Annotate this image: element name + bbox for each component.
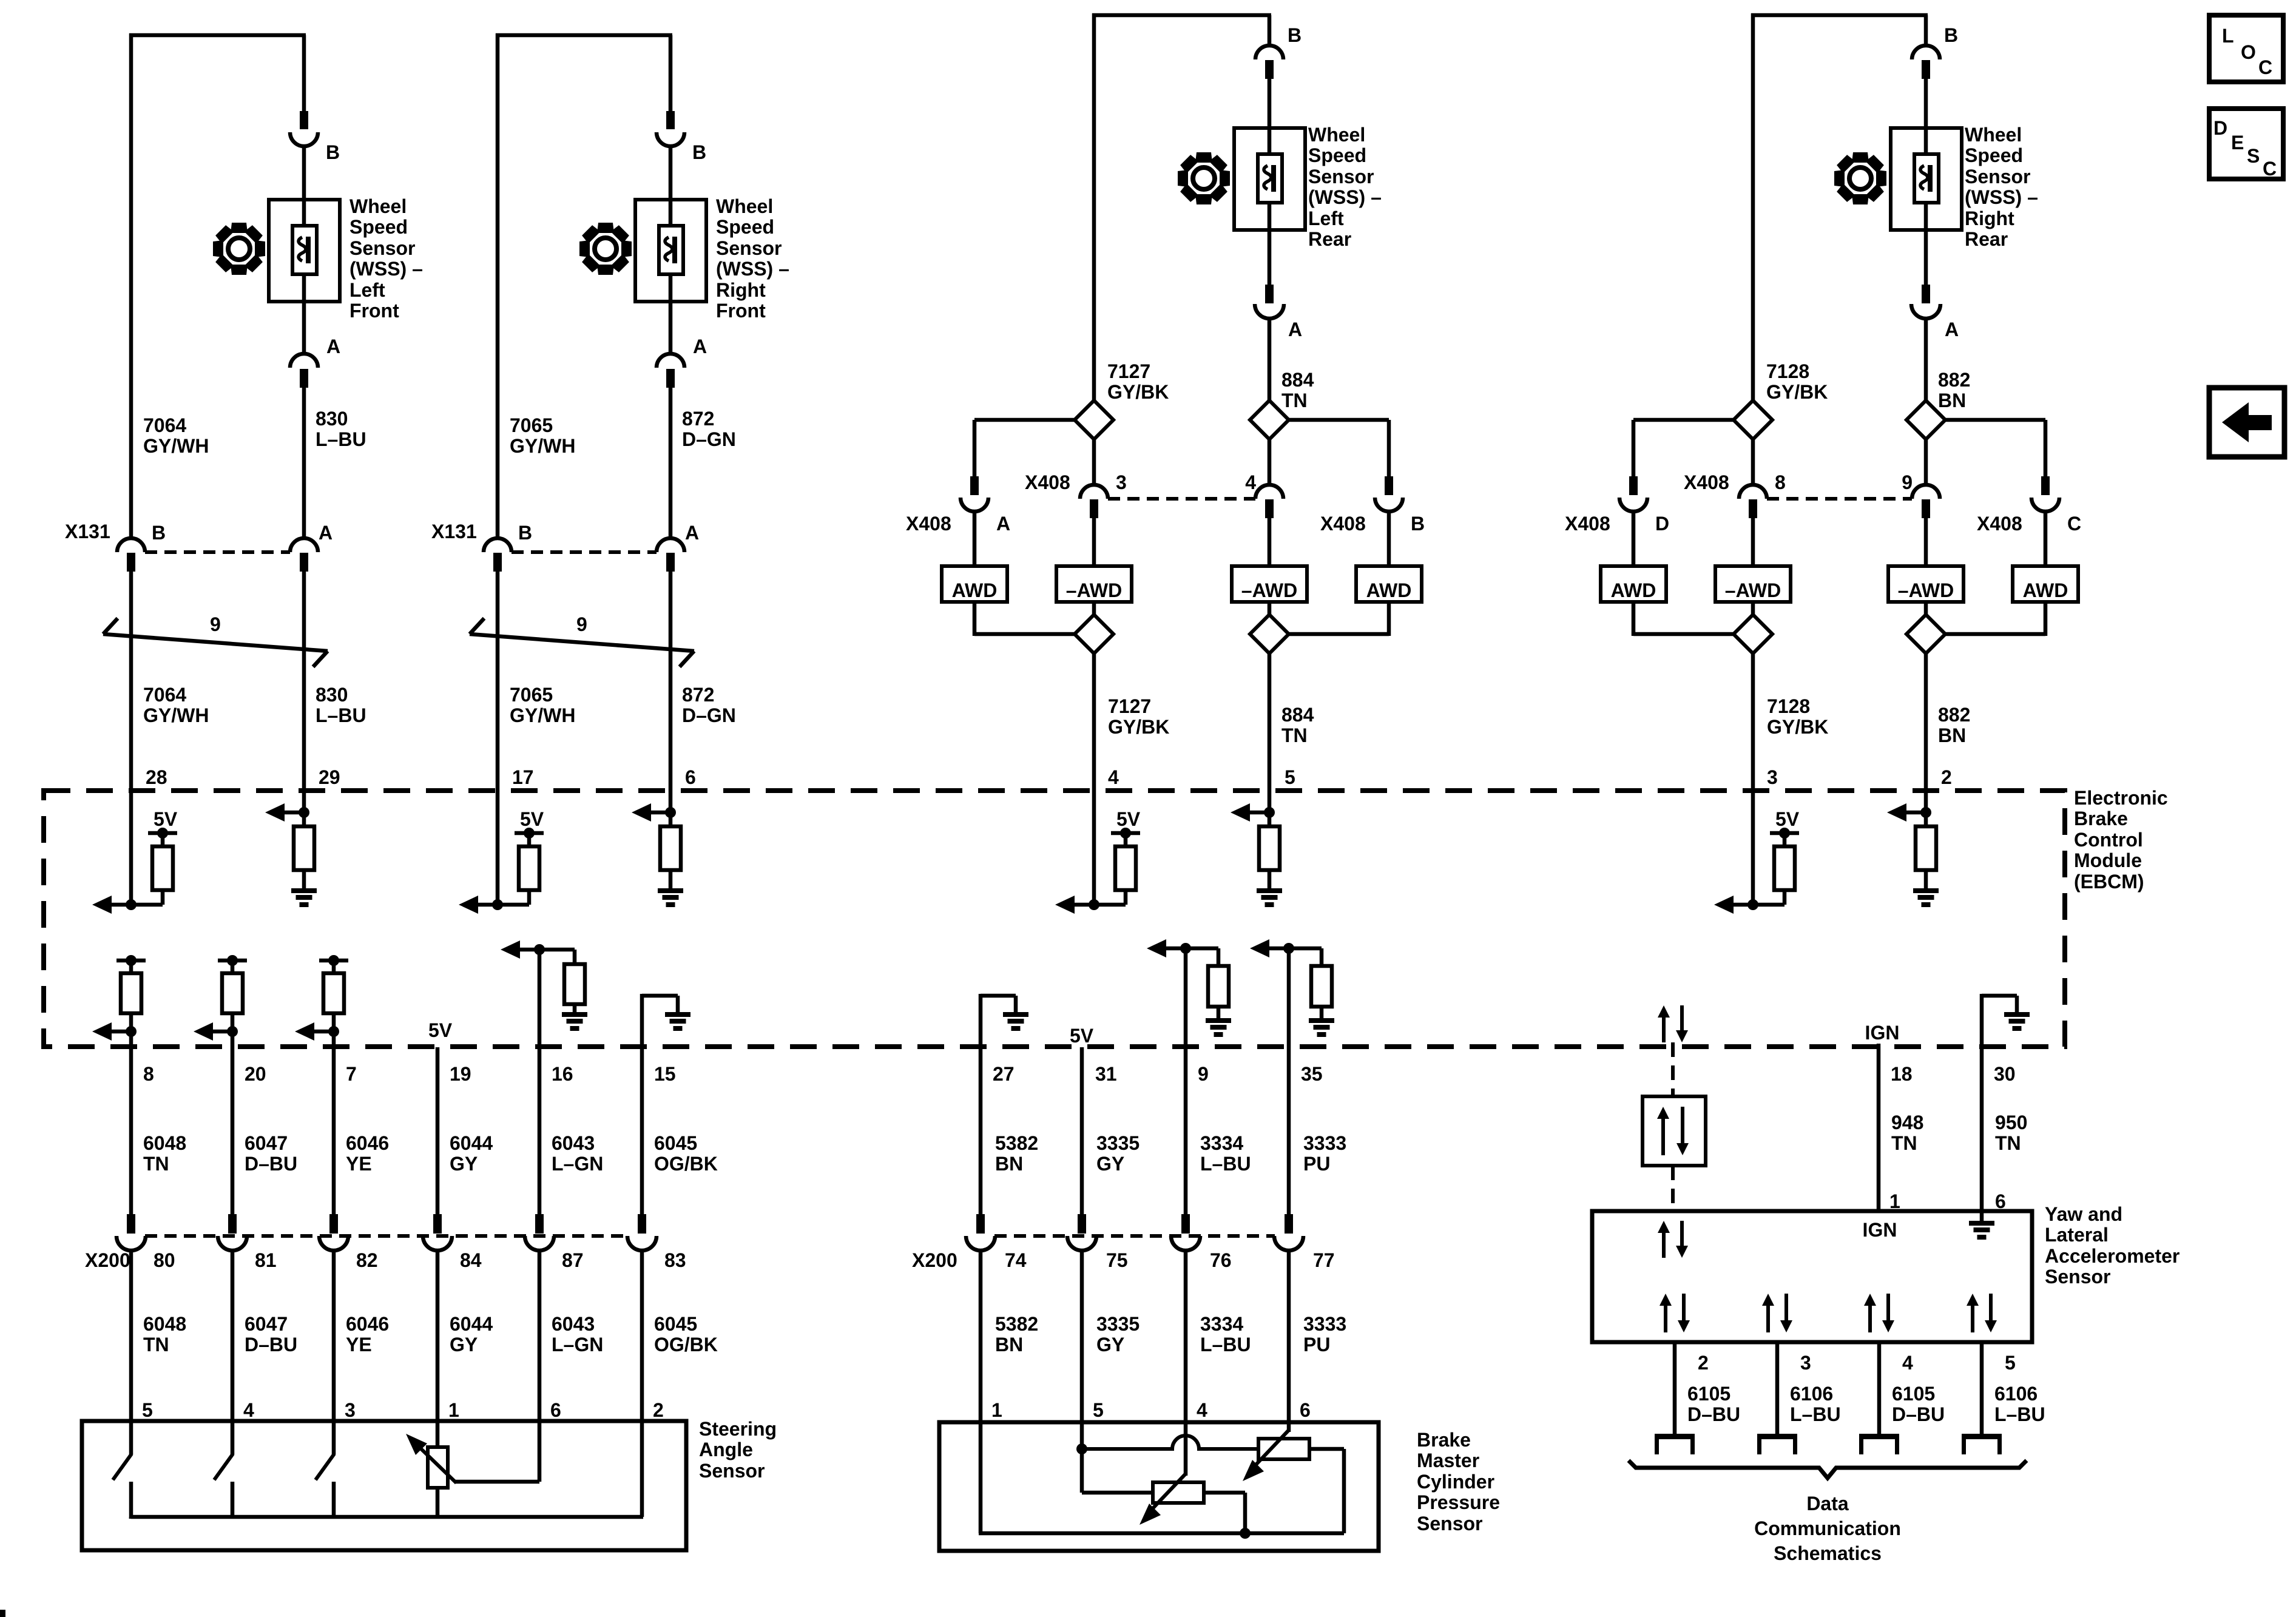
- svg-text:830: 830: [316, 684, 348, 706]
- wire label 950 TN: [1995, 1112, 2027, 1154]
- svg-text:A: A: [685, 522, 699, 544]
- wire to WSS box: [302, 146, 306, 226]
- ground pin 27: [1003, 1012, 1028, 1031]
- pin label 31: [1095, 1063, 1117, 1085]
- svg-text:YE: YE: [346, 1334, 372, 1355]
- pin label 4: [1108, 766, 1119, 788]
- pin label 7: [346, 1063, 357, 1085]
- svg-text:4: 4: [1245, 471, 1256, 493]
- svg-text:Sensor: Sensor: [1965, 166, 2030, 187]
- svg-text:(WSS) –: (WSS) –: [716, 258, 789, 280]
- wire pin1 to ground bus: [979, 1424, 983, 1533]
- WSS box (Wheel Speed Sensor (WSS) – Right Rear): [1891, 128, 1962, 230]
- label pin 81: [255, 1249, 277, 1271]
- svg-text:IGN: IGN: [1863, 1219, 1897, 1241]
- svg-text:872: 872: [682, 684, 714, 706]
- label 5V: [154, 808, 178, 830]
- label X131 A: [685, 522, 699, 544]
- serial arrows (yaw box bottom 4): [1864, 1294, 1894, 1332]
- wire label 6048 upper: [143, 1132, 186, 1175]
- svg-text:7: 7: [346, 1063, 357, 1085]
- signal arrow pin 7: [295, 1022, 314, 1041]
- wire AWD to splice: [974, 602, 1076, 636]
- svg-text:GY/BK: GY/BK: [1108, 716, 1169, 738]
- sensor internal bus: [131, 1517, 643, 1519]
- EBCM wire pin 35: [1287, 948, 1291, 1214]
- connector A cup: [1911, 304, 1940, 319]
- wire top loop 7065: [496, 33, 672, 539]
- Yaw and Lateral Accelerometer Sensor box: [1592, 1211, 2032, 1342]
- wire X200 to sensor: [436, 1250, 440, 1423]
- connector X408 outer-right cup: [2031, 498, 2059, 511]
- svg-text:16: 16: [552, 1063, 573, 1085]
- svg-text:A: A: [996, 513, 1010, 535]
- wire label 3335 lower: [1096, 1313, 1140, 1355]
- splice diamond lower-left: [1075, 615, 1113, 653]
- label X131: [431, 521, 477, 542]
- junction: [110, 899, 163, 910]
- pin label 15: [654, 1063, 676, 1085]
- wire X200 to sensor: [538, 1250, 542, 1423]
- svg-text:87: 87: [562, 1249, 584, 1271]
- svg-text:830: 830: [316, 408, 348, 430]
- splice diamond left: [1075, 400, 1113, 439]
- svg-text:77: 77: [1313, 1249, 1335, 1271]
- wire to AWD box: [973, 511, 977, 566]
- connector X408 inner-left pin: [1090, 499, 1098, 518]
- wire label 872 lower: [682, 684, 736, 726]
- connector A cap: [657, 354, 684, 368]
- svg-text:–AWD: –AWD: [1066, 579, 1122, 601]
- wire below WSS: [1924, 203, 1928, 285]
- svg-text:Communication: Communication: [1754, 1517, 1901, 1539]
- svg-text:–AWD: –AWD: [1725, 579, 1781, 601]
- svg-text:TN: TN: [1891, 1132, 1917, 1154]
- svg-text:D–BU: D–BU: [1687, 1403, 1740, 1425]
- svg-text:–AWD: –AWD: [1241, 579, 1297, 601]
- wire yaw pin 5: [1980, 1342, 1984, 1435]
- label X200: [912, 1249, 957, 1271]
- svg-text:A: A: [326, 336, 340, 357]
- -AWD box: [1888, 566, 1963, 602]
- svg-text:GY/WH: GY/WH: [143, 435, 209, 457]
- junction: [285, 807, 309, 818]
- twisted pair symbol 9: [470, 618, 694, 667]
- svg-text:3334: 3334: [1200, 1313, 1243, 1335]
- X200 dashed harness line: [994, 1234, 1275, 1238]
- wire to EBCM left: [1751, 653, 1755, 791]
- pin label 28: [146, 766, 167, 788]
- wire A to splice: [1268, 318, 1272, 402]
- svg-text:Wheel: Wheel: [1965, 124, 2022, 146]
- WSS box (Wheel Speed Sensor (WSS) – Left Front): [269, 200, 340, 302]
- -AWD box: [1232, 566, 1307, 602]
- label pin 9: [1902, 471, 1913, 493]
- svg-text:7127: 7127: [1107, 360, 1150, 382]
- svg-text:1: 1: [991, 1399, 1002, 1421]
- label X408 outer-right: [1977, 513, 2081, 535]
- svg-text:3335: 3335: [1096, 1313, 1140, 1335]
- svg-text:O: O: [2241, 41, 2256, 63]
- EBCM wire pin 27: [979, 1047, 983, 1214]
- ground pin 15: [665, 1012, 690, 1031]
- svg-text:82: 82: [356, 1249, 378, 1271]
- svg-text:4: 4: [1197, 1399, 1207, 1421]
- gear (tone ring): [1834, 152, 1886, 204]
- wire label 7128 upper: [1766, 360, 1828, 403]
- svg-text:B: B: [1288, 24, 1302, 46]
- connector X408 outer-right pin: [1385, 476, 1393, 495]
- svg-text:AWD: AWD: [1611, 579, 1656, 601]
- svg-text:GY/BK: GY/BK: [1767, 716, 1828, 738]
- svg-text:L: L: [2222, 25, 2234, 47]
- ground hook pin 15: [642, 994, 678, 1047]
- wire label 3335 upper: [1096, 1132, 1140, 1175]
- connector X200 pin 76 cup: [1171, 1236, 1200, 1251]
- pin label 3: [345, 1399, 356, 1421]
- svg-text:950: 950: [1995, 1112, 2027, 1133]
- wire X200 to sensor: [332, 1250, 336, 1423]
- X200 dashed harness line: [145, 1234, 628, 1238]
- connector A cup: [1255, 304, 1284, 319]
- svg-text:Control: Control: [2074, 829, 2143, 851]
- connector X200 pin 84 cup: [423, 1236, 452, 1251]
- svg-text:B: B: [1944, 24, 1958, 46]
- switch: [316, 1423, 334, 1519]
- svg-text:Sensor: Sensor: [1308, 166, 1374, 187]
- signal arrow: [265, 803, 285, 822]
- WSS label: [1965, 124, 2038, 250]
- junction: [651, 807, 676, 818]
- svg-text:9: 9: [1902, 471, 1913, 493]
- connector B cup: [290, 132, 318, 146]
- svg-text:X408: X408: [1977, 513, 2022, 535]
- svg-text:Sensor: Sensor: [2045, 1266, 2110, 1288]
- svg-text:PU: PU: [1303, 1334, 1330, 1355]
- svg-text:TN: TN: [1281, 390, 1308, 411]
- wire pin5 supply: [1076, 1424, 1087, 1493]
- pin label 19: [450, 1063, 471, 1085]
- svg-text:6047: 6047: [245, 1132, 288, 1154]
- EBCM wire pin 20: [231, 1031, 235, 1214]
- ground hook pin 30: [1982, 994, 2017, 1047]
- serial arrows (yaw box bottom 5): [1967, 1294, 1997, 1332]
- connector B cap: [1912, 46, 1940, 59]
- svg-text:AWD: AWD: [2023, 579, 2068, 601]
- label pin 83: [664, 1249, 686, 1271]
- svg-text:6044: 6044: [450, 1313, 493, 1335]
- svg-text:C: C: [2067, 513, 2081, 535]
- potentiometer wiper arrow: [406, 1434, 456, 1483]
- sensor ground bus: [979, 1528, 1344, 1539]
- svg-text:D: D: [1655, 513, 1669, 535]
- svg-text:X408: X408: [1565, 513, 1610, 535]
- svg-text:GY: GY: [450, 1153, 478, 1175]
- AWD box: [942, 566, 1007, 602]
- splice diamond right: [1250, 400, 1289, 439]
- wire label 6045 lower: [654, 1313, 718, 1355]
- wire label 882 upper: [1938, 369, 1970, 411]
- svg-text:Speed: Speed: [349, 216, 408, 238]
- svg-text:B: B: [152, 522, 166, 544]
- connector X200 pin 80 bar: [127, 1214, 135, 1234]
- pull-up 5V bar pin 8: [116, 955, 146, 966]
- wire yaw pin 3: [1775, 1342, 1780, 1435]
- wire below WSS: [302, 274, 306, 354]
- svg-text:D: D: [2213, 117, 2227, 139]
- connector X131-A pin: [300, 553, 308, 572]
- svg-text:6105: 6105: [1892, 1383, 1935, 1405]
- svg-text:Steering: Steering: [699, 1418, 777, 1440]
- WSS label: [349, 195, 423, 322]
- wire to EBCM left: [1092, 653, 1096, 791]
- potentiometer wire: [436, 1423, 440, 1447]
- svg-text:Right: Right: [1965, 208, 2014, 229]
- pin label 6: [685, 766, 696, 788]
- wire label 882 lower: [1938, 704, 1970, 746]
- gear (tone ring): [213, 223, 265, 275]
- potentiometer: [428, 1447, 448, 1519]
- Steering Angle Sensor box: [82, 1421, 686, 1550]
- pin label 4: [1197, 1399, 1207, 1421]
- svg-text:D–GN: D–GN: [682, 704, 736, 726]
- svg-text:D–BU: D–BU: [245, 1153, 297, 1175]
- ground: [1257, 888, 1282, 907]
- svg-text:8: 8: [143, 1063, 154, 1085]
- ground pin 35: [1309, 1018, 1334, 1037]
- pin label 5: [2005, 1352, 2016, 1374]
- label X408 outer-left: [906, 513, 1010, 535]
- pull-up resistor: [152, 833, 173, 905]
- wire label 6047 lower: [245, 1313, 297, 1355]
- svg-text:BN: BN: [1938, 724, 1966, 746]
- connector X200 pin 75 cup: [1067, 1236, 1096, 1251]
- EBCM wire pin 6: [669, 791, 673, 826]
- svg-text:PU: PU: [1303, 1153, 1330, 1175]
- svg-text:20: 20: [245, 1063, 266, 1085]
- svg-text:BN: BN: [995, 1153, 1023, 1175]
- wire -AWD to splice: [1268, 602, 1272, 615]
- transducer B wiper (wire 4): [1140, 1424, 1186, 1525]
- connector X200 pin 82 bar: [329, 1214, 338, 1234]
- wire label 6106: [1790, 1383, 1841, 1425]
- svg-text:TN: TN: [143, 1153, 169, 1175]
- wire label 6044 lower: [450, 1313, 493, 1355]
- svg-text:S: S: [2247, 145, 2260, 167]
- connector X408 outer-left cup: [1619, 498, 1647, 511]
- ground pin 9: [1206, 1018, 1231, 1037]
- svg-text:Master: Master: [1417, 1450, 1479, 1471]
- svg-text:884: 884: [1281, 369, 1314, 391]
- svg-text:5V: 5V: [1070, 1025, 1094, 1047]
- svg-text:Speed: Speed: [716, 216, 774, 238]
- svg-text:8: 8: [1775, 471, 1786, 493]
- label B: [1288, 24, 1302, 46]
- Steering Angle Sensor label: [699, 1418, 777, 1482]
- wire X200 to sensor: [979, 1250, 983, 1424]
- signal arrow: [632, 803, 651, 822]
- wire X200 to sensor: [129, 1250, 133, 1423]
- label A: [326, 336, 340, 357]
- wire to EBCM right: [1268, 653, 1272, 791]
- Data Communication Schematics label: [1754, 1493, 1901, 1564]
- WSS sensor element: [292, 226, 317, 274]
- wire X200 to sensor: [1184, 1250, 1188, 1424]
- wire A to splice: [1924, 318, 1928, 402]
- svg-text:X131: X131: [431, 521, 477, 542]
- svg-text:A: A: [319, 522, 333, 544]
- wire label 6105: [1892, 1383, 1945, 1425]
- svg-text:9: 9: [576, 613, 587, 635]
- wire -AWD to splice: [1924, 602, 1928, 615]
- connector X408 inner-right cap: [1912, 485, 1940, 499]
- svg-text:Speed: Speed: [1308, 144, 1366, 166]
- svg-text:BN: BN: [1938, 390, 1966, 411]
- svg-text:D–BU: D–BU: [1892, 1403, 1945, 1425]
- label pin 82: [356, 1249, 378, 1271]
- connector X408 outer-left pin: [970, 476, 979, 495]
- ground: [291, 888, 317, 907]
- wire X200 to sensor: [640, 1250, 644, 1423]
- wire label 3334 lower: [1200, 1313, 1251, 1355]
- wire label 6047 upper: [245, 1132, 297, 1175]
- WSS sensor element: [659, 226, 683, 274]
- svg-text:5V: 5V: [1116, 808, 1141, 830]
- label pin 74: [1005, 1249, 1027, 1271]
- svg-text:Sensor: Sensor: [1417, 1513, 1482, 1534]
- connector X408 outer-right pin: [2041, 476, 2050, 495]
- splice diamond left: [1734, 400, 1772, 439]
- svg-text:15: 15: [654, 1063, 676, 1085]
- serial arrows (yaw box bottom 2): [1660, 1294, 1690, 1332]
- label A: [1288, 319, 1302, 340]
- LOC box: [2209, 15, 2283, 82]
- pin label 1: [448, 1399, 459, 1421]
- svg-text:6046: 6046: [346, 1313, 389, 1335]
- serial arrows (yaw box top): [1658, 1221, 1688, 1258]
- wire label 7064 upper: [143, 414, 209, 457]
- junction pin 16: [520, 944, 575, 955]
- label B: [1944, 24, 1958, 46]
- gear (tone ring): [579, 223, 632, 275]
- wire label 6044 upper: [450, 1132, 493, 1175]
- X408 dashed harness line: [1108, 497, 1255, 501]
- pressure transducer B: [1153, 1482, 1204, 1503]
- svg-text:Angle: Angle: [699, 1439, 753, 1460]
- svg-text:3: 3: [1116, 471, 1127, 493]
- EBCM wire pin 31: [1080, 1047, 1084, 1214]
- label pin 75: [1106, 1249, 1128, 1271]
- svg-text:(WSS) –: (WSS) –: [349, 258, 423, 280]
- bias resistor: [1916, 826, 1936, 888]
- svg-text:884: 884: [1281, 704, 1314, 726]
- svg-text:AWD: AWD: [952, 579, 998, 601]
- svg-text:Left: Left: [1308, 208, 1344, 229]
- svg-text:5382: 5382: [995, 1313, 1038, 1335]
- svg-text:7128: 7128: [1766, 360, 1809, 382]
- wire top loop 7127: [1092, 13, 1271, 400]
- svg-text:GY/WH: GY/WH: [510, 704, 575, 726]
- svg-text:B: B: [518, 522, 532, 544]
- label 5V (pin 19): [428, 1019, 453, 1041]
- svg-text:28: 28: [146, 766, 167, 788]
- wire label 948 TN: [1891, 1112, 1923, 1154]
- wire label 872 upper: [682, 408, 736, 450]
- svg-text:X408: X408: [1320, 513, 1366, 535]
- svg-text:2: 2: [1698, 1352, 1709, 1374]
- svg-text:(WSS) –: (WSS) –: [1965, 186, 2038, 208]
- serial data dashed wire 2: [1671, 1166, 1675, 1211]
- wire label 830 upper: [316, 408, 366, 450]
- pull-up resistor pin 20: [222, 960, 243, 1031]
- label X200: [85, 1249, 130, 1271]
- splice diamond right: [1906, 400, 1945, 439]
- junction: [1906, 807, 1931, 818]
- svg-text:31: 31: [1095, 1063, 1117, 1085]
- svg-text:7127: 7127: [1108, 695, 1151, 717]
- wire below WSS: [1268, 203, 1272, 285]
- svg-text:Lateral: Lateral: [2045, 1224, 2109, 1246]
- wire below X131 right: [669, 571, 673, 791]
- label B: [326, 141, 340, 163]
- svg-text:3: 3: [345, 1399, 356, 1421]
- connector A pin: [300, 369, 308, 388]
- wire yaw pin 2: [1673, 1342, 1677, 1435]
- wire label 6043 upper: [552, 1132, 603, 1175]
- svg-text:GY/BK: GY/BK: [1107, 381, 1169, 403]
- svg-text:6048: 6048: [143, 1313, 186, 1335]
- pin label 4: [243, 1399, 254, 1421]
- pull-up resistor: [519, 833, 539, 905]
- label 9: [576, 613, 587, 635]
- data bus fork 4: [1859, 1434, 1899, 1454]
- label A: [1945, 319, 1959, 340]
- label 5V (pin 31): [1070, 1025, 1094, 1047]
- pull-up resistor: [1115, 833, 1136, 905]
- svg-text:Front: Front: [349, 300, 399, 322]
- svg-text:6: 6: [550, 1399, 561, 1421]
- svg-text:75: 75: [1106, 1249, 1128, 1271]
- connector A pin: [1922, 285, 1930, 303]
- svg-text:7064: 7064: [143, 684, 186, 706]
- WSS label: [1308, 124, 1382, 250]
- wire below X131 left: [496, 571, 500, 791]
- svg-text:5V: 5V: [428, 1019, 453, 1041]
- svg-text:4: 4: [1108, 766, 1119, 788]
- pin label 5: [142, 1399, 153, 1421]
- wire A to X131: [302, 388, 306, 539]
- pin label 2: [1941, 766, 1952, 788]
- pin label 6: [1995, 1190, 2006, 1212]
- svg-text:27: 27: [993, 1063, 1015, 1085]
- wire label 6105: [1687, 1383, 1740, 1425]
- label pin 77: [1313, 1249, 1335, 1271]
- pin label 2: [653, 1399, 664, 1421]
- Brake Master Cylinder Pressure Sensor box: [939, 1422, 1379, 1551]
- pin label 9: [1198, 1063, 1209, 1085]
- wire label 7065 upper: [510, 414, 575, 457]
- svg-text:5V: 5V: [520, 808, 544, 830]
- wire label 5382 lower: [995, 1313, 1038, 1355]
- svg-text:GY/WH: GY/WH: [143, 704, 209, 726]
- svg-text:GY/BK: GY/BK: [1766, 381, 1828, 403]
- svg-text:3334: 3334: [1200, 1132, 1243, 1154]
- connector X200 pin 81 bar: [228, 1214, 237, 1234]
- svg-text:Module: Module: [2074, 849, 2142, 871]
- svg-text:C: C: [2258, 56, 2272, 78]
- svg-text:Accelerometer: Accelerometer: [2045, 1245, 2180, 1267]
- svg-text:Data: Data: [1806, 1493, 1849, 1514]
